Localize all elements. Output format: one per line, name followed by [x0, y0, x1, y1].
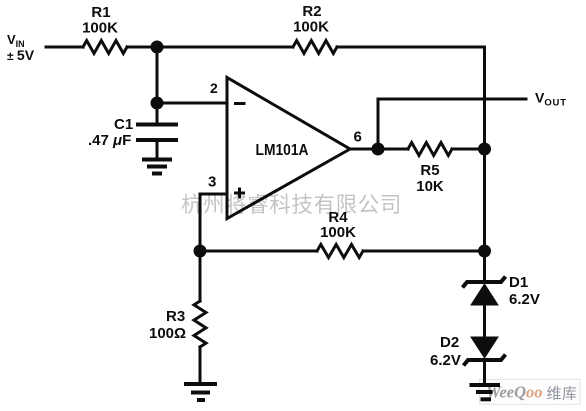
svg-text:2: 2 — [210, 80, 218, 96]
resistor R5 — [408, 143, 452, 156]
svg-text:6: 6 — [354, 129, 362, 146]
wire: pin3 input L-shape — [200, 194, 227, 251]
svg-text:± 5V: ± 5V — [7, 47, 35, 63]
resistor R1 — [83, 41, 127, 54]
svg-text:100K: 100K — [82, 20, 118, 37]
ground (R3) — [184, 382, 217, 386]
svg-text:杭州将睿科技有限公司: 杭州将睿科技有限公司 — [181, 193, 402, 217]
minus sign — [234, 102, 246, 105]
resistor R4 — [317, 245, 363, 258]
svg-text:R5: R5 — [420, 162, 439, 179]
svg-text:维库: 维库 — [547, 386, 578, 403]
wire: R4 to right rail — [363, 250, 485, 253]
wire: R1 to R2 top rail — [127, 46, 293, 49]
node: pin2 junction — [151, 97, 164, 110]
svg-text:D1: D1 — [509, 274, 528, 291]
watermark: WeeQoo logo box — [480, 379, 581, 404]
wire: R5 to right rail — [452, 148, 485, 151]
svg-text:LM101A: LM101A — [256, 142, 309, 159]
wire: output pin6 to R5 — [350, 148, 408, 151]
wire: D1 to D2 — [483, 305, 486, 337]
wire: R2 to right rail corner, down — [337, 47, 485, 282]
node: junction input — [151, 41, 164, 54]
svg-text:6.2V: 6.2V — [509, 291, 540, 308]
wire: output up and right to VOUT — [378, 99, 526, 149]
node: pin3/feedback junction — [194, 245, 207, 258]
capacitor C1 — [156, 103, 159, 123]
op-amp U1 LM101A — [227, 78, 350, 219]
resistor R3 — [199, 251, 202, 301]
wire: VIN to R1 — [46, 46, 83, 49]
wire: feedback bottom rail — [200, 250, 317, 253]
svg-text:C1: C1 — [114, 116, 133, 133]
svg-text:R1: R1 — [91, 4, 110, 21]
svg-text:100K: 100K — [293, 19, 329, 36]
svg-text:D2: D2 — [440, 334, 459, 351]
wire: D2 to ground — [483, 361, 486, 384]
wire: junction down to pin2 node — [156, 47, 159, 103]
node: output junction — [372, 143, 385, 156]
svg-text:3: 3 — [208, 174, 216, 191]
node: right rail at R5 — [478, 143, 491, 156]
plus sign — [234, 188, 245, 199]
resistor R2 — [293, 41, 337, 54]
node VIN input label — [7, 32, 35, 63]
svg-text:.47 μF: .47 μF — [88, 132, 131, 149]
ground (C1) — [142, 158, 172, 162]
wire: to inverting input pin2 — [157, 102, 227, 105]
node: right rail at bottom wire — [478, 245, 491, 258]
svg-text:10K: 10K — [416, 178, 444, 195]
svg-text:VOUT: VOUT — [535, 90, 567, 109]
ground (D2) — [470, 383, 501, 387]
svg-text:R2: R2 — [302, 3, 321, 20]
svg-text:100Ω: 100Ω — [149, 325, 186, 342]
zener diode D2 — [471, 337, 498, 358]
svg-text:R3: R3 — [166, 308, 185, 325]
svg-text:6.2V: 6.2V — [430, 352, 461, 369]
svg-text:100K: 100K — [320, 224, 356, 241]
zener diode D1 — [463, 277, 506, 288]
